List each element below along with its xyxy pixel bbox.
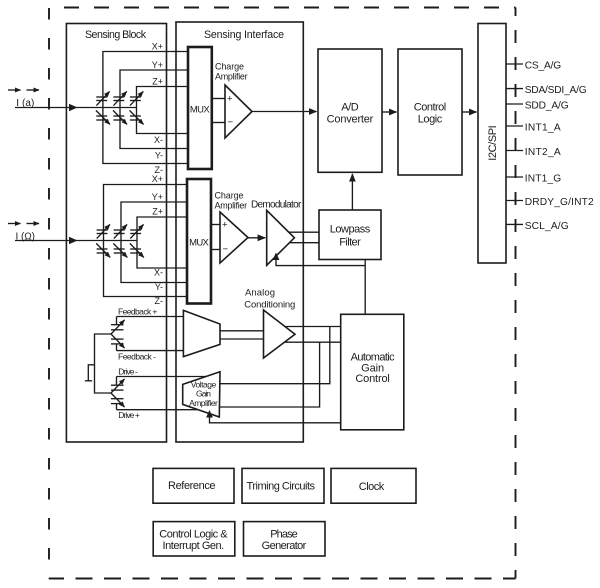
svg-text:Feedback +: Feedback + bbox=[118, 307, 157, 317]
svg-text:Charge: Charge bbox=[215, 190, 244, 200]
svg-text:Amplifier: Amplifier bbox=[215, 200, 248, 210]
svg-text:X-: X- bbox=[154, 268, 163, 278]
svg-text:SCL_A/G: SCL_A/G bbox=[525, 221, 569, 232]
svg-text:CS_A/G: CS_A/G bbox=[525, 61, 562, 72]
svg-text:Y-: Y- bbox=[155, 151, 163, 161]
svg-text:X+: X+ bbox=[152, 42, 163, 52]
svg-text:DRDY_G/INT2: DRDY_G/INT2 bbox=[525, 197, 594, 208]
svg-text:Phase: Phase bbox=[270, 528, 298, 540]
svg-text:Generator: Generator bbox=[262, 540, 307, 552]
svg-text:Interrupt Gen.: Interrupt Gen. bbox=[163, 540, 225, 552]
svg-text:Drive -: Drive - bbox=[118, 366, 138, 376]
svg-text:Amplifier: Amplifier bbox=[189, 398, 218, 408]
svg-text:INT1_A: INT1_A bbox=[525, 123, 561, 134]
svg-text:Z+: Z+ bbox=[152, 207, 163, 217]
svg-text:Charge: Charge bbox=[215, 62, 244, 72]
svg-text:Converter: Converter bbox=[327, 113, 374, 125]
svg-text:Clock: Clock bbox=[359, 481, 385, 493]
svg-text:Analog: Analog bbox=[245, 288, 275, 299]
svg-text:Y+: Y+ bbox=[152, 192, 163, 202]
svg-text:SDA/SDI_A/G: SDA/SDI_A/G bbox=[525, 85, 587, 96]
svg-text:Drive +: Drive + bbox=[118, 410, 140, 420]
svg-text:I (a): I (a) bbox=[16, 98, 34, 109]
svg-text:Y+: Y+ bbox=[152, 60, 163, 70]
svg-text:I (Ω): I (Ω) bbox=[16, 231, 36, 242]
svg-text:−: − bbox=[223, 244, 229, 255]
svg-text:Conditioning: Conditioning bbox=[244, 299, 295, 310]
svg-text:Z+: Z+ bbox=[152, 76, 163, 86]
svg-text:X-: X- bbox=[154, 135, 163, 145]
svg-text:Lowpass: Lowpass bbox=[330, 223, 371, 235]
svg-text:Y-: Y- bbox=[155, 282, 163, 292]
svg-text:Z-: Z- bbox=[155, 296, 164, 306]
svg-text:Sensing Interface: Sensing Interface bbox=[204, 29, 284, 41]
svg-text:Filter: Filter bbox=[339, 236, 361, 248]
svg-text:I2C/SPI: I2C/SPI bbox=[487, 125, 499, 161]
svg-text:X+: X+ bbox=[152, 174, 163, 184]
svg-text:+: + bbox=[227, 94, 233, 105]
svg-text:MUX: MUX bbox=[190, 105, 210, 116]
svg-text:Demodulator: Demodulator bbox=[251, 200, 302, 211]
svg-text:Feedback -: Feedback - bbox=[118, 351, 156, 361]
svg-text:−: − bbox=[228, 117, 234, 128]
svg-text:Triming Circuits: Triming Circuits bbox=[247, 481, 316, 493]
svg-text:SDD_A/G: SDD_A/G bbox=[525, 101, 569, 112]
svg-text:Control Logic &: Control Logic & bbox=[159, 528, 228, 540]
svg-text:Amplifier: Amplifier bbox=[215, 72, 248, 82]
svg-text:Control: Control bbox=[414, 101, 447, 113]
svg-text:Reference: Reference bbox=[168, 480, 216, 492]
svg-text:INT2_A: INT2_A bbox=[525, 147, 561, 158]
svg-text:Logic: Logic bbox=[418, 113, 443, 125]
svg-text:+: + bbox=[222, 220, 228, 231]
svg-text:A/D: A/D bbox=[341, 101, 359, 113]
svg-text:Sensing Block: Sensing Block bbox=[85, 29, 147, 41]
svg-text:INT1_G: INT1_G bbox=[525, 174, 562, 185]
svg-text:MUX: MUX bbox=[189, 238, 209, 249]
svg-text:Control: Control bbox=[355, 373, 390, 385]
